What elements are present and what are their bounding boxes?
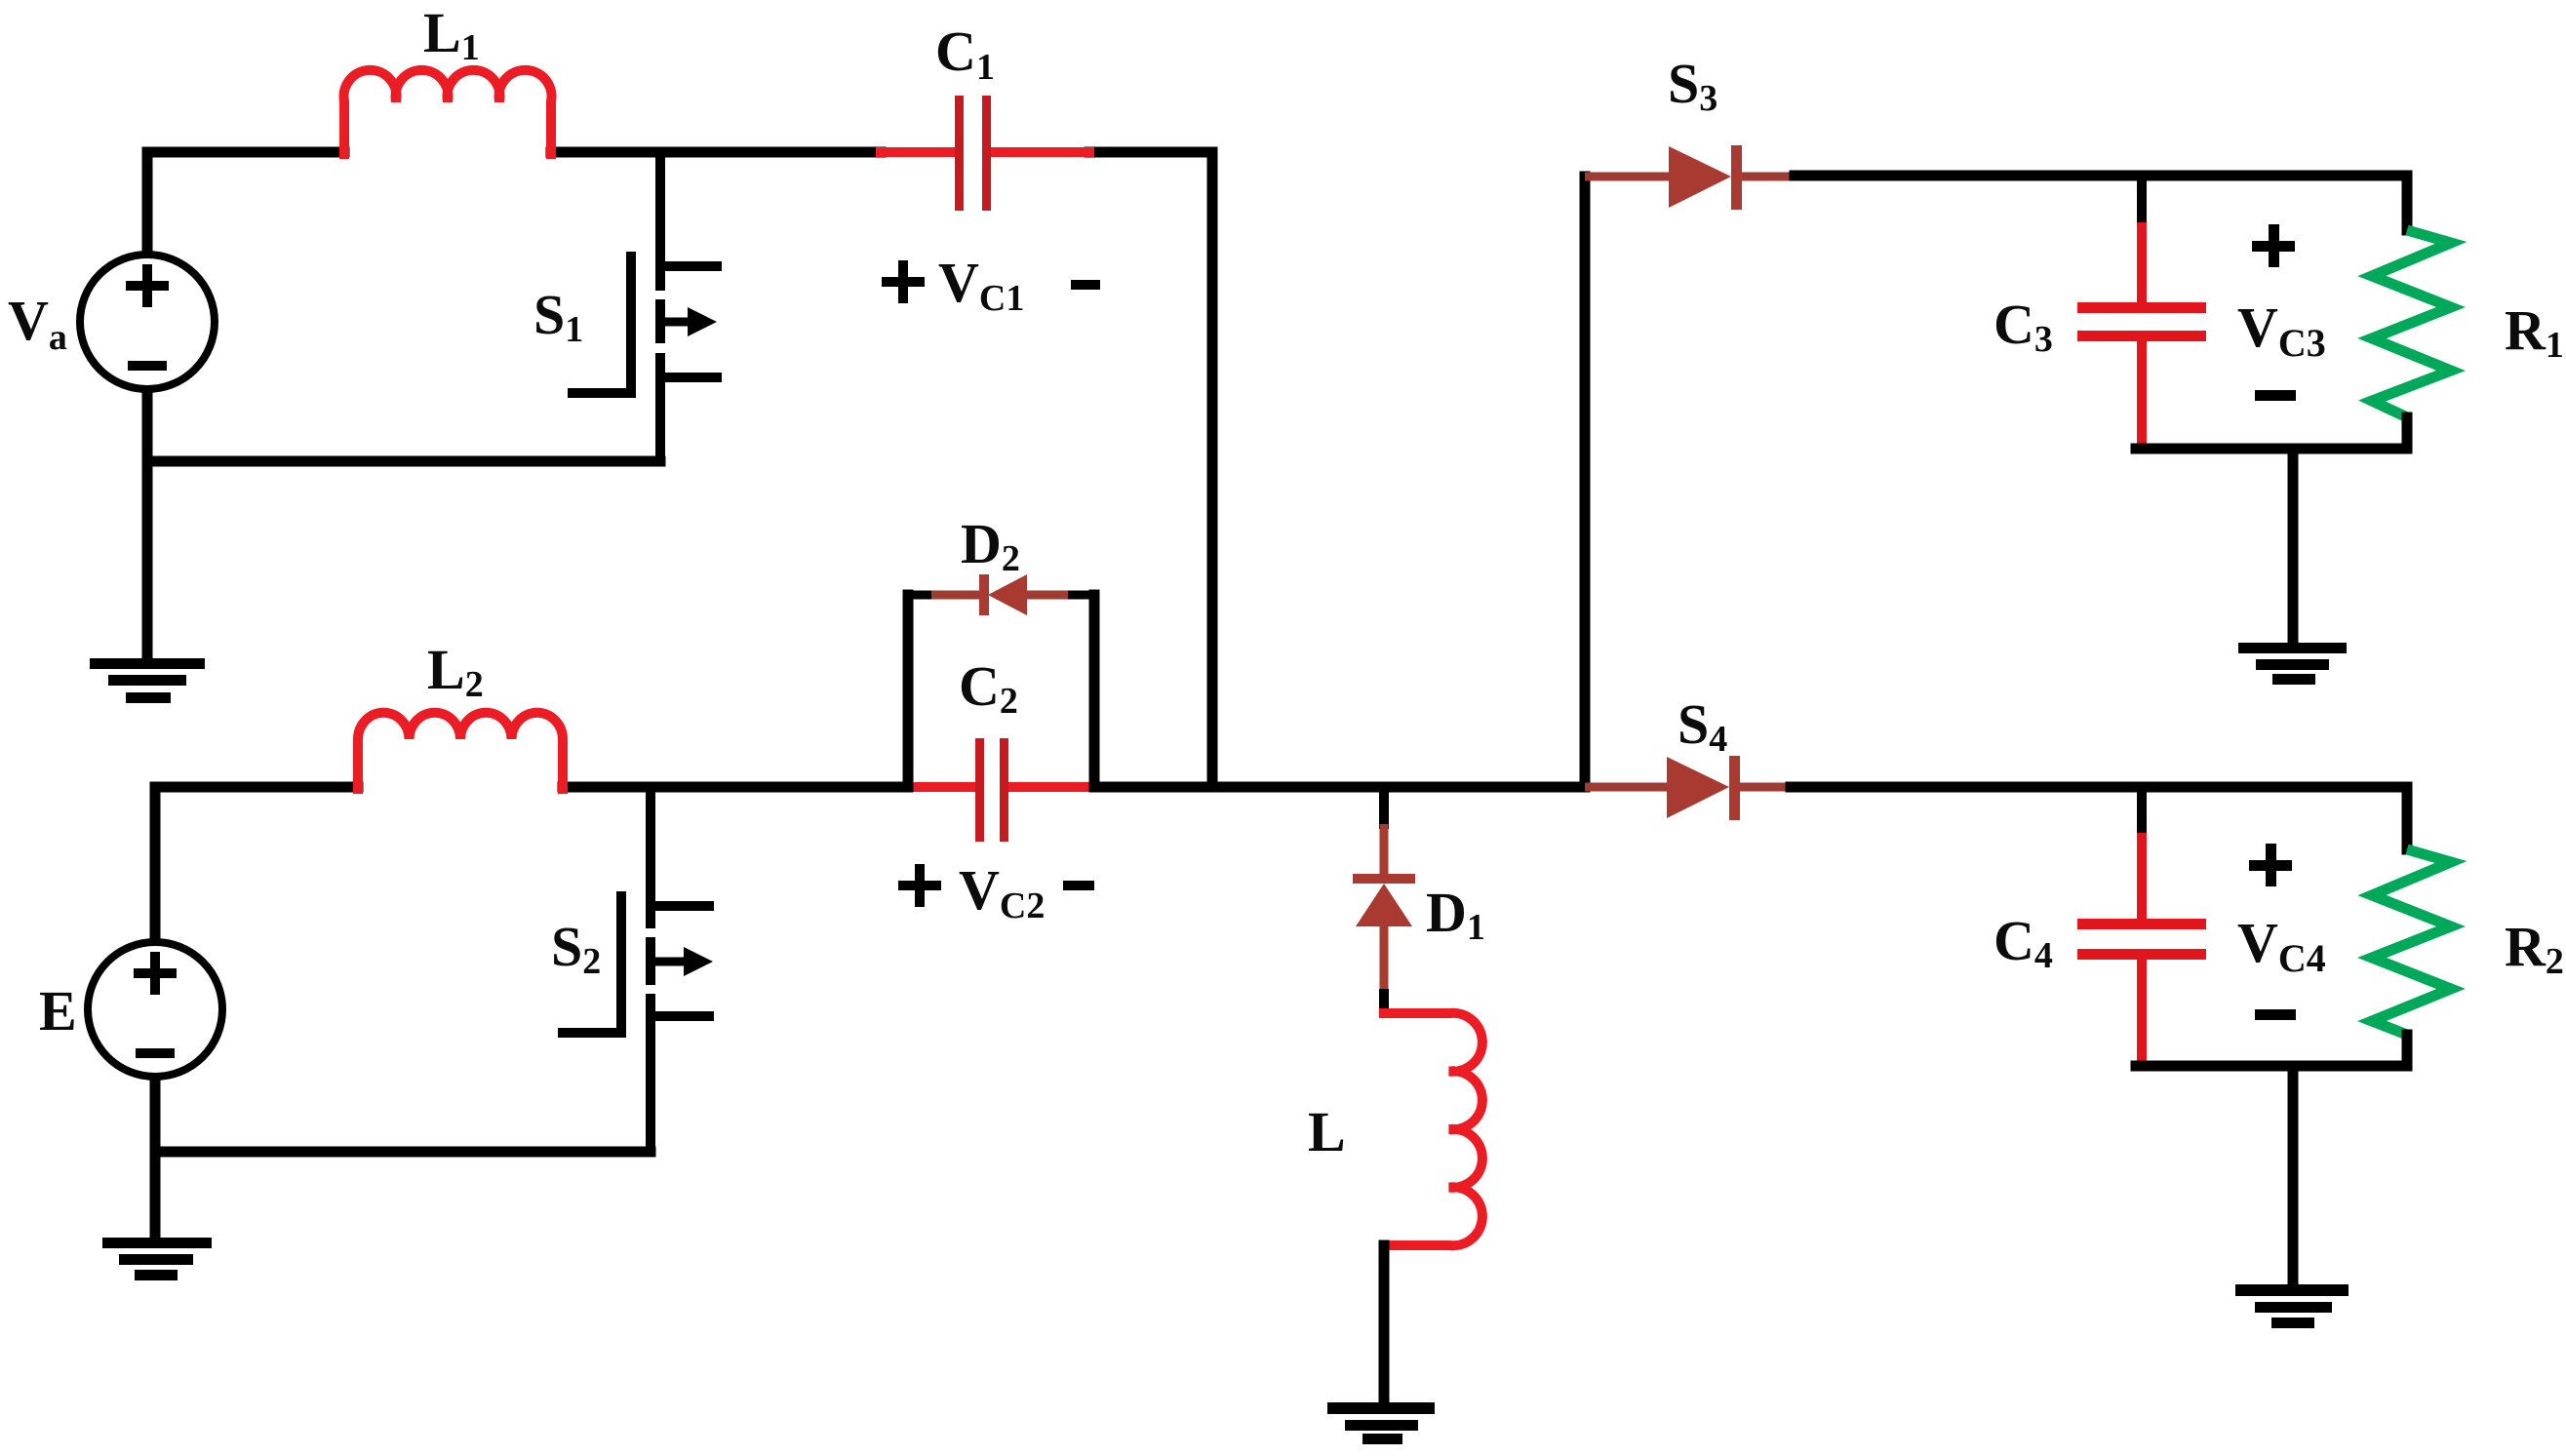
wire: E bottom stem to ground [150,1075,161,1239]
label +VC1- [882,260,925,303]
wire: S3 to C3 block top [1795,171,2407,181]
label + above VC4 [2249,844,2292,886]
resistor R2 [2372,787,2451,1066]
diode S4 [1585,756,1791,820]
capacitor C2 [908,738,1094,842]
diode D2 [908,574,1094,615]
wire: bus L2 to C2 [563,782,908,793]
ground under L [1327,1402,1435,1444]
diode D2 box right wire [1089,595,1100,787]
ground under C3 block [2238,643,2347,685]
wire: C4 block bottom [2136,1061,2407,1072]
wire: E top to L2 [155,787,358,942]
transistor S1 (MOSFET) [568,152,722,461]
label + above VC3 [2252,224,2295,267]
wire: S3/S4 junction vertical [1580,177,1591,787]
svg-text:E: E [39,979,77,1043]
inductor L [1384,1013,1482,1245]
wire: C1 right lead to corner, down to bus [1089,152,1212,787]
inductor L1 [343,70,551,154]
ground under Va [90,658,205,703]
voltage source Va [80,255,215,389]
capacitor C1 [881,96,1089,211]
ground under C4 block [2235,1284,2349,1328]
wire: loop1 bottom from Va to S1 [147,456,660,467]
voltage source E [88,942,222,1077]
diode D2 box left wire [903,595,914,787]
transistor S2 (MOSFET) [558,787,714,1152]
diode S3 [1585,145,1795,210]
diode D1 [1353,787,1415,1013]
resistor R1 [2372,176,2451,449]
wire: loop2 bottom from E to S2 [155,1147,651,1158]
label - below VC3 [2255,390,2296,401]
wire: L bottom stem to ground [1379,1245,1390,1403]
wire: Va bottom stem to ground [142,386,153,663]
wire: C3 block bottom [2136,444,2407,454]
wire: S4 to C4 block top, down right side [1791,782,2407,793]
ground under E [102,1238,212,1280]
wire: bus C2 to S4 junction [1094,782,1585,793]
capacitor C4 [2077,787,2206,1062]
wire: C3 block ground stem [2288,449,2299,644]
wire top loop1: Va top to L1 [147,152,344,257]
label +VC2- [898,864,941,907]
label - below VC4 [2255,1009,2296,1020]
inductor L2 [358,713,563,789]
wire top loop1: L1 to C1 left lead [551,147,881,158]
wire: C4 block ground stem [2288,1066,2299,1285]
capacitor C3 [2077,176,2206,445]
svg-text:L: L [1308,1100,1346,1163]
